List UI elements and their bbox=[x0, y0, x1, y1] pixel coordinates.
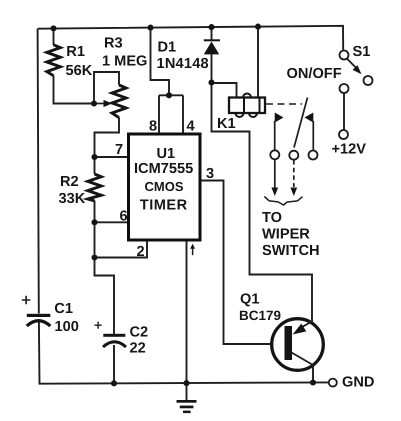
svg-text:D1: D1 bbox=[158, 40, 177, 56]
svg-text:R2: R2 bbox=[60, 174, 79, 190]
svg-text:22: 22 bbox=[130, 341, 146, 357]
svg-text:8: 8 bbox=[149, 119, 157, 135]
svg-text:4: 4 bbox=[187, 118, 196, 134]
svg-text:R3: R3 bbox=[104, 36, 123, 52]
svg-text:3: 3 bbox=[206, 166, 214, 182]
svg-text:R1: R1 bbox=[66, 44, 85, 60]
svg-text:7: 7 bbox=[115, 142, 123, 158]
svg-text:1N4148: 1N4148 bbox=[157, 56, 209, 72]
svg-text:U1: U1 bbox=[157, 146, 176, 162]
svg-text:C2: C2 bbox=[130, 325, 149, 341]
svg-text:TO: TO bbox=[262, 210, 282, 226]
svg-text:ON/OFF: ON/OFF bbox=[287, 66, 342, 82]
svg-text:GND: GND bbox=[342, 374, 374, 390]
svg-text:6: 6 bbox=[120, 209, 128, 225]
svg-text:WIPER: WIPER bbox=[262, 227, 310, 243]
svg-text:2: 2 bbox=[137, 244, 145, 260]
svg-text:TIMER: TIMER bbox=[140, 197, 188, 213]
svg-text:C1: C1 bbox=[54, 301, 73, 317]
svg-text:Q1: Q1 bbox=[240, 291, 259, 307]
svg-text:100: 100 bbox=[55, 319, 79, 335]
svg-text:+12V: +12V bbox=[332, 142, 367, 158]
svg-text:BC179: BC179 bbox=[239, 308, 281, 323]
svg-text:33K: 33K bbox=[59, 191, 86, 207]
svg-text:K1: K1 bbox=[217, 116, 236, 132]
svg-text:1 MEG: 1 MEG bbox=[102, 54, 147, 70]
svg-text:56K: 56K bbox=[66, 63, 93, 79]
svg-text:ICM7555: ICM7555 bbox=[134, 161, 193, 177]
svg-text:CMOS: CMOS bbox=[145, 179, 184, 194]
svg-text:SWITCH: SWITCH bbox=[262, 243, 320, 259]
svg-text:S1: S1 bbox=[353, 44, 371, 60]
